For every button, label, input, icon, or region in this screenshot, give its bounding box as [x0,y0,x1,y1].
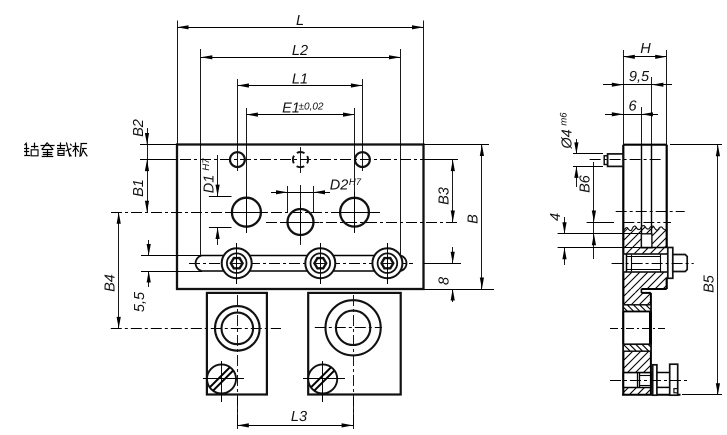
clamp bar [196,256,407,272]
centerline bolt row [189,263,413,265]
svg-text:B6: B6 [578,174,594,193]
bushing bottom ring [611,344,661,351]
bottom screw shank [638,373,651,388]
extension line pin top [573,153,603,155]
extension line L2 left / slot end [200,49,202,255]
svg-text:L3: L3 [291,409,307,425]
clamp screw hole white [623,254,668,272]
svg-text:B: B [466,214,482,224]
clamp screw head side [673,255,687,272]
extension line B6 bottom [587,222,614,224]
clamp screw shank side [627,254,661,272]
extension line L left [177,21,179,145]
block step side [641,289,651,293]
centerline block1 hole vertical [237,295,239,428]
centerline bolt1 vertical [236,243,238,284]
extension line E1 right / hole M3 vertical [354,108,356,233]
svg-text:H7: H7 [201,158,212,171]
dimension B4 [103,212,121,328]
centerline D2 row [266,222,458,224]
pin hole T1 [230,152,245,167]
section hatch upper [586,222,706,254]
side view inner edge 6 [641,145,643,248]
screw slotted right [305,362,345,402]
svg-text:B2: B2 [131,119,147,137]
extension line E1 left / hole M1 vertical [246,108,248,233]
extension line bar bottom left [141,271,202,273]
extension line 9,5 right [651,77,653,145]
block left [207,293,267,395]
svg-text:B1: B1 [131,179,147,197]
svg-text:H: H [640,41,651,57]
extension line plate top right [424,144,490,146]
extension line plate top left [140,144,177,146]
svg-text:D2: D2 [330,178,349,194]
dimension 6 [605,99,658,117]
extension line pin bottom [573,166,603,168]
side row2 centerline [616,211,685,213]
section hatch left strip [619,289,647,293]
centerline bolt3 vertical [387,243,389,284]
centerline bolt2 vertical [320,243,322,284]
bore (white) [623,312,651,345]
side view inner edge 9,5 [651,145,653,234]
extension line L right [423,21,425,145]
title text 钻套载板 [24,142,87,156]
svg-text:4: 4 [548,213,564,221]
bore centerline side [610,328,665,330]
dimension B [466,145,485,290]
dimension B1 [131,160,149,213]
centerline block hole row left [111,328,281,330]
side D2 centerline [623,222,671,224]
svg-text:B5: B5 [702,274,718,293]
dimension L [177,13,424,29]
bushing top ring [615,305,659,312]
svg-text:m6: m6 [559,112,570,126]
hole D1 left [226,192,266,232]
svg-text:5,5: 5,5 [132,291,148,312]
centerline hole T2 vertical [300,147,302,173]
dimension L3 [237,409,353,428]
dimension 5,5 [132,240,151,312]
svg-text:H7: H7 [349,177,362,188]
socket screw bolt2 [305,243,335,284]
break line (partial section boundary) [623,226,666,233]
side pin centerline [590,159,662,161]
plate outline (front view) [177,145,424,290]
centerline screw2 horizontal [303,378,345,380]
extension line L3 right [353,397,355,429]
side view right edge upper [666,145,668,289]
centerline screw2 vertical [322,361,324,402]
dimension E1 ±0,02 [246,101,354,117]
dimension B6 [578,162,597,259]
dimension B3 [437,160,455,222]
svg-text:±0,02: ±0,02 [299,102,324,113]
bottom screw hole white [623,373,651,388]
centerline hole row 1 [140,159,458,161]
extension line H right [666,50,668,145]
centerline bolt row right extension [424,263,462,265]
clamp screw centerline [612,263,694,265]
extension line row1 left [140,159,177,161]
centerline screw1 horizontal [203,378,244,380]
side view left edge [622,145,624,395]
extension line notch top left [558,233,642,235]
pin hole T2 phantom [293,152,308,167]
dimension L2 [201,43,401,59]
centerline hole T1 vertical [237,79,239,171]
svg-text:L1: L1 [292,72,308,88]
extension line plate bottom right [424,289,495,291]
svg-text:L2: L2 [292,43,308,59]
block right bushing bore [326,300,381,355]
plate bottom edge side [641,288,666,290]
svg-text:8: 8 [437,277,453,285]
svg-text:Ø4: Ø4 [560,129,576,149]
block left bushing bore [215,306,260,351]
svg-text:L: L [296,13,304,29]
extension line 6 right [641,107,643,145]
block right edge side [650,293,652,395]
dimension D2 H7 [271,177,362,212]
pin Ø4 [604,154,623,167]
hole D1 right [335,192,375,232]
svg-text:D1: D1 [202,175,218,194]
centerline hole D2 vertical [300,185,302,245]
dimension H [623,41,666,59]
dimension B2 [131,119,149,159]
dimension 4 [548,213,567,265]
svg-text:E1: E1 [282,101,300,117]
bottom screw spacer [657,373,670,388]
dimension D1 H7 [201,155,232,245]
side view top edge [623,144,666,146]
dimension L1 [237,72,362,88]
block right [308,293,401,395]
bottom screw washer [653,365,657,395]
svg-text:9,5: 9,5 [629,69,650,85]
dimension 8 [437,247,455,302]
side bottom edge [622,394,681,396]
screw slotted left [204,362,244,402]
extension line bar top left [141,255,202,257]
notch bottom line [641,247,666,249]
bottom screw head [670,364,678,395]
centerline screw1 vertical [221,361,223,402]
pin hole T3 [355,152,370,167]
centerline block hole row right [315,327,382,329]
extension line row1 right [424,159,459,161]
extension line L2 right / slot end [400,49,402,255]
section hatch block [517,293,727,395]
bottom screw centerline [610,380,688,382]
hole D2 middle [282,203,320,241]
extension line B5 bottom [682,394,722,396]
extension line B5 top [670,144,722,146]
centerline hole row 2 [111,212,380,214]
section hatch below screw [599,272,688,289]
clamp screw washer side [668,248,673,279]
centerline hole T3 vertical [362,79,364,171]
dimension 9,5 [603,69,672,87]
svg-text:B3: B3 [437,187,453,205]
notch (bar slot) white [641,234,652,248]
svg-text:6: 6 [628,99,637,115]
dimension B5 [702,145,721,395]
extension line notch bottom left [558,247,642,249]
socket screw bolt1 [222,243,252,284]
extension line H left [623,50,625,145]
dimension Ø4 m6 [559,112,579,187]
socket screw bolt3 [372,243,402,284]
extension line L3 left [237,397,239,429]
centerline block2 hole vertical [353,295,355,428]
svg-text:B4: B4 [103,274,119,292]
